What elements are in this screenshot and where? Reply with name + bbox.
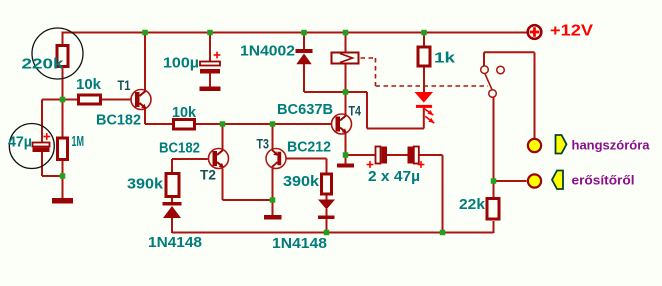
svg-text:T2: T2 [200,167,216,183]
svg-text:hangszóróra: hangszóróra [572,138,651,153]
svg-text:BC637B: BC637B [277,102,333,118]
svg-text:BC182: BC182 [159,141,200,157]
svg-text:T1: T1 [118,77,131,93]
svg-text:390k: 390k [127,177,164,193]
svg-text:BC182: BC182 [96,113,141,129]
svg-text:1N4002: 1N4002 [240,44,295,60]
svg-text:2 x 47µ: 2 x 47µ [368,169,420,185]
svg-text:1k: 1k [434,51,456,67]
svg-text:220k: 220k [22,57,65,73]
svg-text:10k: 10k [172,105,197,121]
svg-text:1N4148: 1N4148 [272,236,327,252]
svg-text:erősítőről: erősítőről [572,173,635,188]
svg-text:10k: 10k [76,77,102,93]
svg-text:T4: T4 [349,103,362,119]
svg-text:100µ: 100µ [163,56,199,72]
svg-text:1M: 1M [72,134,85,150]
svg-text:1N4148: 1N4148 [148,235,202,251]
svg-text:22k: 22k [459,197,486,213]
svg-text:390k: 390k [283,174,320,190]
svg-text:+12V: +12V [550,23,593,40]
svg-text:BC212: BC212 [287,140,331,156]
svg-text:47µ: 47µ [8,135,32,151]
svg-text:T3: T3 [257,136,270,152]
